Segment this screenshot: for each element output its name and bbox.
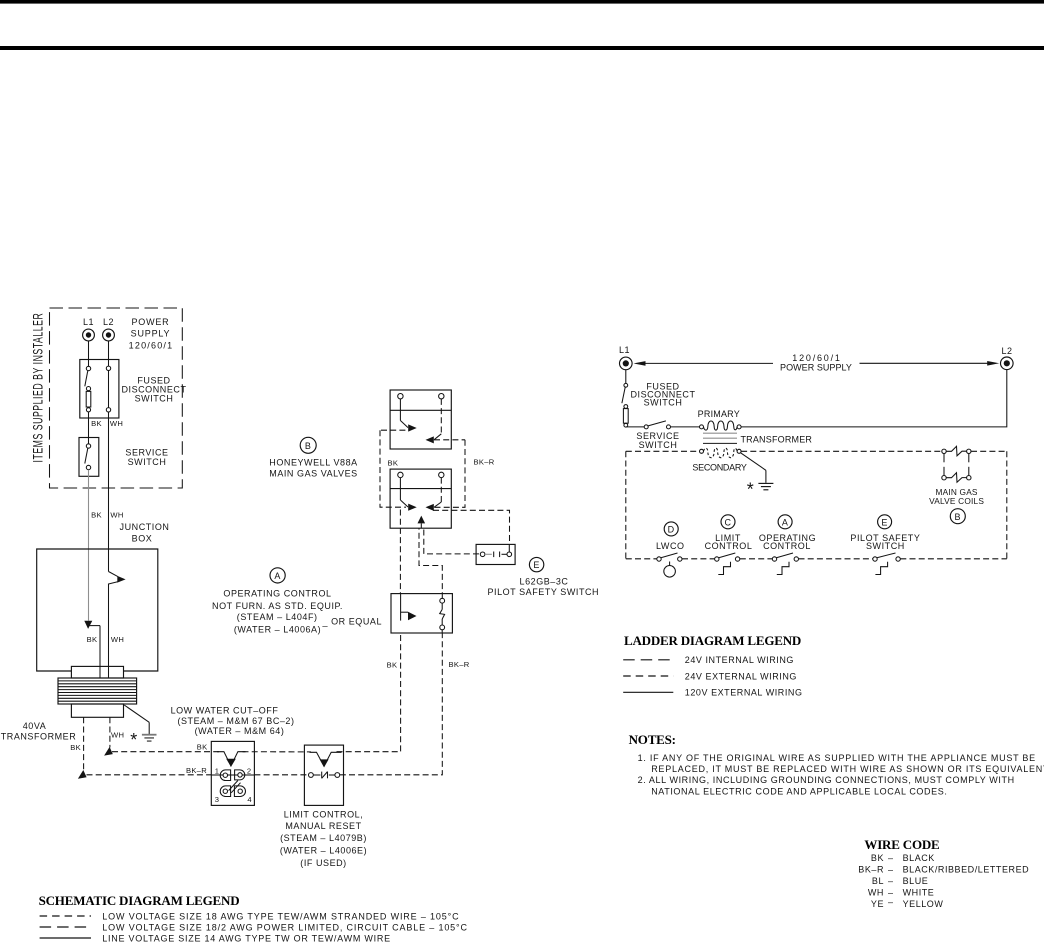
- wire BK into valve V1: [381, 429, 406, 431]
- svg-text:3: 3: [215, 795, 220, 804]
- label LIMIT CONTROL: [705, 533, 753, 551]
- service switch contacts and blade: [85, 444, 91, 470]
- legend stranded wire dashed sample: [40, 915, 91, 917]
- svg-text:BK–R: BK–R: [858, 864, 884, 874]
- label BK / WH above junction box: [91, 511, 124, 520]
- svg-text:(WATER – M&M 64): (WATER – M&M 64): [195, 726, 285, 736]
- reference bubble B ladder: [950, 509, 965, 524]
- wire BK-R valve V1 to valve V2: [434, 440, 465, 508]
- junction splice arrow on WH wire: [109, 572, 126, 679]
- svg-text:A: A: [274, 571, 281, 581]
- svg-text:(IF USED): (IF USED): [300, 858, 346, 868]
- svg-text:YE: YE: [871, 899, 884, 909]
- LWCO internal strap terminal2 to terminal3: [229, 781, 241, 793]
- main gas valve coil 2: [942, 473, 971, 483]
- svg-text:BL: BL: [872, 876, 884, 886]
- transformer T1 bottom cap: [71, 704, 123, 717]
- svg-text:–: –: [888, 888, 894, 898]
- svg-text:LOW VOLTAGE SIZE 18 AWG TYPE T: LOW VOLTAGE SIZE 18 AWG TYPE TEW/AWM STR…: [102, 911, 459, 921]
- svg-text:BOX: BOX: [132, 534, 153, 544]
- limit control switch ladder: [715, 553, 740, 575]
- gas valve V1 body: [390, 390, 451, 449]
- svg-text:NOT FURN. AS STD. EQUIP.: NOT FURN. AS STD. EQUIP.: [212, 601, 343, 611]
- svg-text:–: –: [888, 853, 894, 863]
- gas valve V2 BK lead with splice arrow: [400, 478, 416, 511]
- transformer secondary winding dashed: [700, 448, 742, 457]
- svg-text:PRIMARY: PRIMARY: [698, 409, 740, 419]
- svg-text:4: 4: [247, 795, 252, 804]
- wire service switch to primary: [671, 426, 700, 428]
- installer items dashed enclosure: [50, 308, 183, 488]
- fused disconnect switch box: [80, 360, 119, 419]
- splice arrow WH to BK low-voltage run: [104, 747, 113, 756]
- legend circuit cable dashed sample: [40, 926, 91, 928]
- wire pilot safety switch to valve V2: [424, 530, 480, 554]
- gas valve V2 terminals: [398, 472, 444, 477]
- label OPERATING CONTROL ladder: [759, 533, 816, 551]
- svg-text:WH: WH: [868, 888, 884, 898]
- wire fuse to service switch: [626, 426, 644, 428]
- ladder legend external wiring text: [685, 671, 797, 681]
- label BK / WH under disconnect: [91, 419, 123, 428]
- transformer primary winding: [700, 421, 742, 430]
- svg-text:BK: BK: [70, 743, 81, 752]
- pilot safety switch box: [476, 544, 515, 564]
- svg-text:B: B: [955, 512, 962, 522]
- gas valve V2 BK-R lead with splice arrow: [426, 478, 442, 511]
- svg-text:(STEAM – L4079B): (STEAM – L4079B): [280, 833, 367, 843]
- low water cut-off box: [211, 741, 254, 805]
- svg-text:E: E: [533, 560, 540, 570]
- transformer T1 top cap: [71, 666, 123, 678]
- node L2 terminal: [103, 317, 115, 341]
- label BK-R between valves: [474, 457, 495, 466]
- wire BK row to low water cut-off: [112, 751, 219, 753]
- svg-text:SCHEMATIC DIAGRAM LEGEND: SCHEMATIC DIAGRAM LEGEND: [39, 893, 240, 908]
- legend line voltage solid sample: [40, 937, 91, 939]
- label FUSED DISCONNECT SWITCH: [121, 376, 186, 404]
- svg-text:LOW WATER CUT–OFF: LOW WATER CUT–OFF: [171, 706, 279, 716]
- 24V circuit dashed enclosure: [626, 451, 1007, 559]
- svg-text:VALVE COILS: VALVE COILS: [929, 496, 984, 506]
- svg-text:POWER: POWER: [131, 317, 169, 327]
- svg-text:*: *: [747, 480, 754, 500]
- gas valve V1 BK-R lead with splice arrow: [426, 399, 442, 444]
- label BK under operating control: [387, 660, 398, 669]
- label OPERATING CONTROL block: [212, 589, 382, 635]
- svg-text:L2: L2: [103, 317, 114, 327]
- ladder legend internal wiring text: [685, 655, 794, 665]
- svg-text:WHITE: WHITE: [903, 888, 935, 898]
- label FUSED DISCONNECT SWITCH ladder: [630, 381, 695, 407]
- wire BK secondary lead dashed: [83, 717, 85, 771]
- wire BK-R row to low water cut-off: [87, 774, 255, 776]
- svg-text:WH: WH: [110, 511, 123, 520]
- service switch ladder contacts and blade: [644, 421, 670, 429]
- svg-text:CONTROL: CONTROL: [763, 541, 811, 551]
- svg-text:BK–R: BK–R: [186, 766, 207, 775]
- label 120/60/1 POWER SUPPLY: [780, 353, 852, 373]
- svg-text:(STEAM – L404F): (STEAM – L404F): [237, 612, 318, 622]
- label ITEMS SUPPLIED BY INSTALLER: [31, 313, 47, 463]
- svg-text:C: C: [724, 517, 731, 527]
- svg-text:2: 2: [247, 766, 252, 775]
- wire WH disconnect down to junction box: [108, 412, 110, 572]
- svg-text:LIMIT CONTROL,: LIMIT CONTROL,: [284, 810, 364, 820]
- svg-text:SWITCH: SWITCH: [135, 394, 174, 404]
- ladder legend internal wiring sample: [623, 659, 673, 661]
- reference bubble A ladder: [778, 515, 792, 529]
- label L62GB-3C PILOT SAFETY SWITCH: [487, 576, 599, 597]
- wire BK valve V2 down to operating control: [399, 510, 401, 594]
- svg-text:D: D: [668, 525, 675, 535]
- wire BK-R out of valve V1: [434, 439, 465, 441]
- svg-text:BK: BK: [871, 853, 884, 863]
- svg-text:MANUAL RESET: MANUAL RESET: [285, 821, 361, 831]
- pilot safety switch ladder: [873, 553, 901, 575]
- gas valve V1 BK lead with splice arrow: [400, 399, 416, 432]
- LWCO terminal 1: [215, 767, 231, 781]
- svg-text:WH: WH: [110, 419, 123, 428]
- svg-text:LINE VOLTAGE SIZE 14 AWG TYPE: LINE VOLTAGE SIZE 14 AWG TYPE TW OR TEW/…: [102, 933, 391, 943]
- wire BK row limit control to operating control riser: [337, 633, 401, 752]
- legend circuit cable text: [102, 922, 468, 932]
- svg-text:40VA: 40VA: [23, 721, 47, 731]
- wire valve V2 to pilot safety switch right terminal: [433, 510, 510, 544]
- limit control box: [304, 745, 343, 805]
- label SERVICE SWITCH: [125, 448, 168, 467]
- wire L1 to fused disconnect: [88, 341, 90, 366]
- svg-text:*: *: [130, 730, 137, 750]
- wire L1 drop: [625, 370, 627, 384]
- svg-text:24V INTERNAL WIRING: 24V INTERNAL WIRING: [685, 655, 794, 665]
- label BK / WH inside junction box: [87, 635, 125, 644]
- junction splice arrow on BK wire: [84, 621, 100, 678]
- pilot safety switch contacts: [480, 544, 511, 557]
- schematic diagram legend title: [39, 893, 240, 908]
- limit control manual-reset switch contacts: [309, 772, 340, 779]
- svg-text:CONTROL: CONTROL: [705, 541, 753, 551]
- svg-text:L1: L1: [83, 317, 94, 327]
- label SECONDARY: [692, 463, 746, 473]
- svg-text:WH: WH: [111, 635, 124, 644]
- operating control switch ladder: [772, 553, 798, 575]
- reference bubble B: [300, 437, 316, 453]
- operating control box: [391, 594, 452, 633]
- label LOW WATER CUT-OFF: [171, 706, 295, 736]
- label BK at LWCO: [197, 742, 208, 751]
- wire operating control switch up to valve V2 terminal: [419, 528, 442, 598]
- reference bubble C: [721, 515, 735, 529]
- svg-text:SWITCH: SWITCH: [866, 541, 905, 551]
- label PRIMARY: [698, 409, 740, 419]
- svg-text:SWITCH: SWITCH: [128, 457, 167, 467]
- ground symbol ladder: [758, 483, 773, 489]
- asterisk at transformer ground: [130, 730, 137, 750]
- svg-text:SECONDARY: SECONDARY: [692, 463, 746, 473]
- svg-text:JUNCTION: JUNCTION: [120, 522, 170, 532]
- ladder legend external wiring sample: [623, 675, 673, 677]
- svg-text:120V EXTERNAL WIRING: 120V EXTERNAL WIRING: [685, 688, 803, 698]
- svg-text:120/60/1: 120/60/1: [129, 341, 174, 351]
- wire BK service switch down to junction box: [88, 470, 90, 621]
- svg-text:SWITCH: SWITCH: [644, 398, 683, 408]
- label BK-R at LWCO: [186, 766, 207, 775]
- svg-text:1: 1: [215, 767, 220, 776]
- gas valve V1 terminals: [398, 394, 444, 399]
- svg-text:–: –: [888, 876, 894, 886]
- svg-text:BLACK/RIBBED/LETTERED: BLACK/RIBBED/LETTERED: [903, 864, 1030, 874]
- svg-text:BK–R: BK–R: [474, 457, 495, 466]
- svg-text:(WATER – L4006A): (WATER – L4006A): [234, 625, 321, 635]
- main gas valve coil 1: [942, 446, 971, 456]
- svg-text:1. IF ANY OF THE ORIGINAL WIRE: 1. IF ANY OF THE ORIGINAL WIRE AS SUPPLI…: [638, 753, 1036, 763]
- label MAIN GAS VALVE COILS: [929, 487, 984, 506]
- LWCO terminal 2: [235, 766, 252, 780]
- svg-text:BK: BK: [388, 458, 399, 467]
- coil interconnect wires: [944, 454, 969, 476]
- svg-text:(STEAM – M&M 67 BC–2): (STEAM – M&M 67 BC–2): [177, 716, 294, 726]
- asterisk at ladder ground: [747, 480, 754, 500]
- svg-text:BLUE: BLUE: [903, 876, 929, 886]
- wire BK row LWCO to limit control: [243, 751, 312, 753]
- svg-text:L62GB–3C: L62GB–3C: [520, 576, 569, 586]
- svg-text:2. ALL WIRING, INCLUDING GROUN: 2. ALL WIRING, INCLUDING GROUNDING CONNE…: [638, 775, 1015, 785]
- label BK-R under operating control: [449, 660, 470, 669]
- LWCO terminal 3: [215, 786, 231, 804]
- label SERVICE SWITCH ladder: [636, 431, 679, 450]
- svg-text:WIRE CODE: WIRE CODE: [864, 837, 939, 852]
- svg-text:MAIN GAS VALVES: MAIN GAS VALVES: [269, 469, 357, 479]
- ladder legend 120V wiring sample: [623, 691, 673, 693]
- svg-text:SUPPLY: SUPPLY: [131, 329, 171, 339]
- svg-text:E: E: [881, 517, 888, 527]
- node L1 terminal: [83, 317, 95, 341]
- op-amp note: operating control reference bubble A: [270, 568, 285, 583]
- fused disconnect pole L2 contacts: [106, 366, 110, 412]
- svg-text:A: A: [782, 517, 789, 527]
- svg-text:SWITCH: SWITCH: [639, 440, 678, 450]
- svg-text:_ OR EQUAL: _ OR EQUAL: [322, 617, 383, 627]
- svg-text:BK: BK: [91, 419, 102, 428]
- label PILOT SAFETY SWITCH ladder: [850, 533, 920, 551]
- svg-text:BLACK: BLACK: [903, 853, 935, 863]
- svg-text:LADDER DIAGRAM LEGEND: LADDER DIAGRAM LEGEND: [624, 633, 801, 648]
- transformer core: [703, 433, 737, 443]
- limit control probe funnel: [310, 752, 342, 767]
- LWCO switch ladder: [657, 553, 682, 577]
- reference bubble D: [664, 522, 678, 536]
- transformer case ground lead: [124, 705, 149, 734]
- wire BK-R row limit control to operating control riser: [340, 633, 443, 775]
- LWCO probe funnel: [217, 752, 246, 767]
- svg-text:BK: BK: [387, 660, 398, 669]
- wire BK-R row LWCO to limit control: [254, 774, 308, 776]
- ladder diagram legend title: [624, 633, 801, 648]
- wire code title: [864, 837, 939, 852]
- svg-text:BK: BK: [197, 742, 208, 751]
- reference bubble E: [529, 557, 543, 571]
- fused disconnect pole L1: contact, blade, fuse F1: [85, 366, 91, 412]
- label BK between valves: [388, 458, 399, 467]
- note 2: [638, 775, 1015, 796]
- label TRANSFORMER: [740, 434, 812, 444]
- transformer T1 lamination stack: [58, 678, 137, 704]
- svg-text:120/60/1: 120/60/1: [792, 353, 841, 363]
- top page rule thick: [0, 46, 1044, 50]
- notes title: [629, 732, 676, 747]
- label HONEYWELL V88A MAIN GAS VALVES: [269, 457, 357, 478]
- svg-text:L2: L2: [1001, 346, 1012, 356]
- svg-text:POWER SUPPLY: POWER SUPPLY: [780, 363, 852, 373]
- wire L2 to fused disconnect: [108, 341, 110, 366]
- svg-text:YELLOW: YELLOW: [903, 899, 944, 909]
- secondary ground lead: [741, 453, 766, 483]
- label JUNCTION BOX: [120, 522, 170, 544]
- svg-text:BK–R: BK–R: [449, 660, 470, 669]
- label WH secondary: [111, 730, 124, 739]
- gas valve V2 pilot feed splice arrow up: [418, 516, 426, 529]
- gas valve V2 body: [390, 469, 451, 528]
- junction box: [37, 549, 158, 671]
- reference bubble E ladder: [878, 515, 892, 529]
- node L1 ladder: [619, 345, 632, 370]
- svg-text:(WATER – L4006E): (WATER – L4006E): [280, 845, 367, 855]
- operating control switch contacts: [440, 598, 445, 633]
- top page rule thin: [0, 0, 1044, 4]
- LWCO terminal 4: [234, 786, 251, 804]
- svg-text:WH: WH: [111, 730, 124, 739]
- svg-text:HONEYWELL V88A: HONEYWELL V88A: [269, 457, 357, 467]
- wire WH secondary lead dashed: [109, 717, 111, 747]
- node L2 ladder: [1001, 346, 1014, 370]
- service switch box: [79, 438, 99, 477]
- svg-text:–: –: [888, 897, 894, 907]
- svg-text:ITEMS SUPPLIED BY INSTALLER: ITEMS SUPPLIED BY INSTALLER: [31, 313, 47, 463]
- legend stranded wire text: [102, 911, 459, 921]
- note 1: [638, 753, 1044, 774]
- svg-text:NOTES:: NOTES:: [629, 732, 676, 747]
- label LWCO: [656, 541, 685, 551]
- svg-text:PILOT SAFETY SWITCH: PILOT SAFETY SWITCH: [487, 587, 599, 597]
- label POWER SUPPLY 120/60/1: [129, 317, 174, 351]
- svg-text:L1: L1: [619, 345, 630, 355]
- wire power supply span with arrows: [634, 361, 1000, 366]
- legend line voltage text: [102, 933, 391, 943]
- svg-text:B: B: [305, 441, 312, 451]
- wire primary to L2 leg: [741, 370, 1007, 427]
- svg-text:NATIONAL ELECTRIC CODE AND APP: NATIONAL ELECTRIC CODE AND APPLICABLE LO…: [651, 787, 947, 797]
- 24V circuit bottom rail dashed: [626, 558, 1007, 560]
- svg-text:OPERATING CONTROL: OPERATING CONTROL: [223, 589, 331, 599]
- svg-text:REPLACED, IT MUST BE REPLACED: REPLACED, IT MUST BE REPLACED WITH WIRE …: [651, 764, 1044, 774]
- fused disconnect ladder: contact, blade, fuse: [622, 383, 628, 427]
- svg-text:LWCO: LWCO: [656, 541, 685, 551]
- wire code entries: [858, 853, 1029, 909]
- ladder legend 120V wiring text: [685, 688, 803, 698]
- svg-text:BK: BK: [91, 511, 102, 520]
- svg-text:LOW VOLTAGE SIZE 18/2 AWG POWE: LOW VOLTAGE SIZE 18/2 AWG POWER LIMITED,…: [102, 922, 468, 932]
- svg-text:BK: BK: [87, 635, 98, 644]
- label LIMIT CONTROL MANUAL RESET: [280, 810, 367, 868]
- svg-text:TRANSFORMER: TRANSFORMER: [740, 434, 812, 444]
- svg-text:–: –: [888, 864, 894, 874]
- label 40VA TRANSFORMER: [1, 721, 77, 742]
- label BK secondary: [70, 743, 81, 752]
- wire BK valve V1 to valve V2: [380, 430, 406, 507]
- svg-text:TRANSFORMER: TRANSFORMER: [1, 732, 77, 742]
- wire BK disconnect to service switch: [88, 412, 90, 444]
- ground symbol at transformer: [142, 735, 157, 741]
- splice arrow BK to BK-R run: [78, 770, 87, 779]
- operating control BK feed-through with splice arrow: [401, 594, 417, 621]
- svg-text:24V EXTERNAL WIRING: 24V EXTERNAL WIRING: [685, 671, 797, 681]
